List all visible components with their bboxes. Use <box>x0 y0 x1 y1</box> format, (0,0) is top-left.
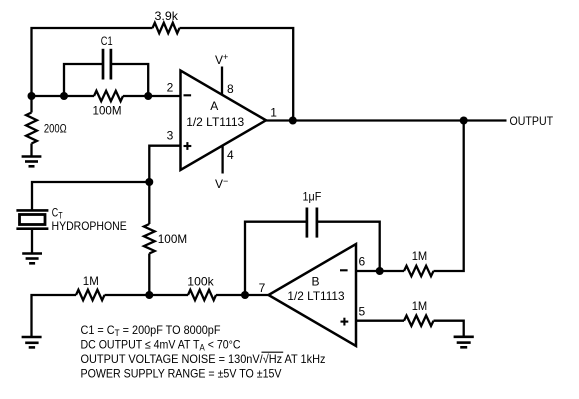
node C1 right tap <box>144 92 152 100</box>
wire output row <box>266 119 507 121</box>
pin 4 wire V- <box>221 146 223 174</box>
svg-text:POWER SUPPLY RANGE = ±5V TO ±1: POWER SUPPLY RANGE = ±5V TO ±15V <box>81 367 282 381</box>
svg-text:2: 2 <box>167 80 174 94</box>
wire 1M to output vertical <box>434 121 464 272</box>
node pin 6 <box>376 267 384 275</box>
wire input row segment 2 to pin 2 <box>123 95 181 97</box>
node pin 7 <box>241 291 249 299</box>
svg-text:1M: 1M <box>412 249 428 263</box>
svg-text:4: 4 <box>227 148 234 162</box>
svg-text:C1 = CT = 200pF TO 8000pF: C1 = CT = 200pF TO 8000pF <box>81 323 221 338</box>
capacitor C1 <box>102 49 105 80</box>
svg-text:B: B <box>312 275 320 289</box>
svg-text:1M: 1M <box>83 274 99 288</box>
wire pin 5 to ground <box>434 321 464 336</box>
svg-text:V+: V+ <box>215 52 228 67</box>
ground below hydrophone <box>22 254 42 264</box>
plus sign op-amp B <box>341 318 349 326</box>
pin 8 wire V+ <box>221 67 223 95</box>
svg-text:1/2 LT1113: 1/2 LT1113 <box>287 289 345 303</box>
svg-text:DC OUTPUT ≤ 4mV AT TA < 70°C: DC OUTPUT ≤ 4mV AT TA < 70°C <box>81 338 241 353</box>
node hydrophone junction <box>145 178 153 186</box>
wire to 200 ohm <box>30 96 32 113</box>
svg-text:7: 7 <box>259 281 266 295</box>
wire 200 ohm to ground <box>30 144 32 157</box>
ground bottom-right <box>454 337 474 348</box>
svg-text:1μF: 1μF <box>303 190 322 204</box>
ground below 200ohm <box>22 157 42 167</box>
resistor 1M right-top <box>404 266 434 276</box>
wire C1 branch left <box>64 64 103 96</box>
note line 3 overline <box>262 351 284 353</box>
resistor 3.9k <box>153 23 180 33</box>
wire vertical rail lower <box>148 254 150 296</box>
wire bottom row middle <box>105 294 189 296</box>
wire 1uF branch left <box>245 222 307 295</box>
ground bottom-left <box>22 337 42 347</box>
wire bottom row left <box>32 295 77 336</box>
node C1 left tap <box>60 92 68 100</box>
wire pin 5 row <box>356 320 404 322</box>
svg-text:OUTPUT: OUTPUT <box>510 114 554 128</box>
wire pin 6 row <box>356 270 404 272</box>
minus sign op-amp A <box>184 94 192 96</box>
resistor 100k <box>188 290 216 300</box>
wire hydrophone branch <box>32 182 149 210</box>
node bottom rail <box>145 291 153 299</box>
svg-text:200Ω: 200Ω <box>44 122 67 136</box>
wire feedback top-left <box>32 28 153 96</box>
svg-text:8: 8 <box>227 82 234 96</box>
minus sign op-amp B <box>340 269 348 271</box>
svg-text:100M: 100M <box>158 232 187 246</box>
hydrophone transducer CT <box>16 210 48 252</box>
svg-text:1/2 LT1113: 1/2 LT1113 <box>186 115 244 129</box>
svg-text:100M: 100M <box>93 104 122 118</box>
svg-text:A: A <box>210 99 218 113</box>
svg-text:3: 3 <box>167 129 174 143</box>
node input <box>28 92 36 100</box>
svg-text:OUTPUT VOLTAGE NOISE = 130nV/√: OUTPUT VOLTAGE NOISE = 130nV/√Hz AT 1kHz <box>81 352 326 366</box>
wire pin 3 to vertical rail <box>149 146 180 224</box>
wire 1uF branch right <box>317 222 380 271</box>
capacitor 1uF <box>306 208 309 238</box>
op-amp A <box>181 71 267 171</box>
svg-text:C1: C1 <box>101 34 113 48</box>
wire C1 branch right <box>111 64 148 96</box>
plus sign op-amp A <box>184 142 192 150</box>
svg-text:1M: 1M <box>412 299 428 313</box>
svg-text:1: 1 <box>270 105 277 119</box>
svg-text:6: 6 <box>359 254 366 268</box>
svg-text:HYDROPHONE: HYDROPHONE <box>52 219 127 233</box>
node output tap <box>460 117 468 125</box>
resistor 1M bottom-left <box>76 290 105 300</box>
svg-text:5: 5 <box>359 305 366 319</box>
op-amp B <box>269 244 357 346</box>
resistor 200ohm <box>26 113 37 144</box>
wire bottom row to op-amp B <box>216 294 269 296</box>
resistor 1M right-bottom <box>404 316 434 326</box>
resistor 100M horizontal <box>94 91 123 101</box>
svg-text:V−: V− <box>215 176 228 191</box>
wire feedback top-right <box>180 28 294 121</box>
wire input row segment 1 <box>32 95 95 97</box>
svg-text:3.9k: 3.9k <box>155 9 180 23</box>
node feedback tap <box>289 117 297 125</box>
resistor 100M vertical <box>144 224 155 254</box>
svg-text:100k: 100k <box>187 275 214 289</box>
